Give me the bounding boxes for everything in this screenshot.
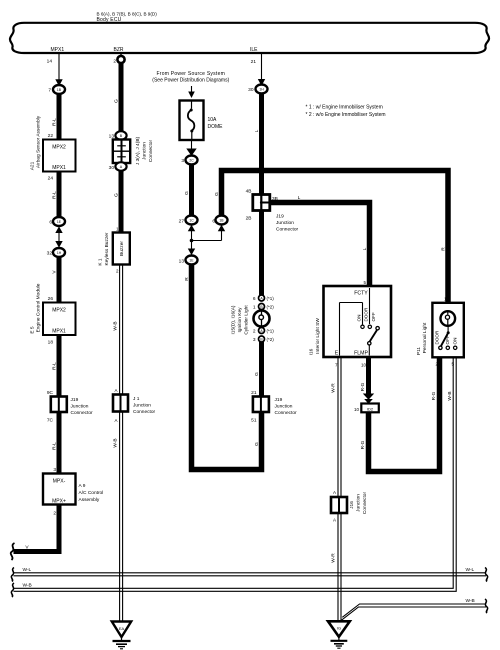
svg-text:22: 22 — [48, 133, 54, 139]
wire R-L col1 upper — [57, 94, 62, 140]
wire ILE stub — [261, 53, 263, 80]
connector ID2 — [354, 404, 379, 413]
svg-text:10A: 10A — [208, 117, 218, 123]
svg-text:2B: 2B — [246, 216, 252, 222]
wire R-G to personal light — [369, 357, 440, 471]
wire L ILE — [259, 94, 264, 195]
svg-text:W-B: W-B — [466, 598, 475, 604]
svg-text:24: 24 — [48, 176, 54, 182]
svg-text:A: A — [333, 518, 336, 523]
connector arrow up col4 — [218, 225, 225, 232]
svg-text:R-L: R-L — [52, 191, 58, 199]
main horizontal wire and P11 feed — [222, 171, 449, 303]
svg-text:W-R: W-R — [331, 553, 337, 563]
svg-text:G: G — [254, 442, 260, 446]
svg-text:(*2): (*2) — [267, 305, 275, 310]
svg-text:(*1): (*1) — [267, 329, 275, 334]
svg-text:R-L: R-L — [52, 442, 58, 450]
svg-text:ON: ON — [356, 315, 361, 322]
wire junction to col4 — [192, 240, 222, 242]
svg-text:2: 2 — [53, 511, 56, 517]
svg-text:1H: 1H — [57, 251, 62, 255]
svg-text:ON: ON — [452, 338, 457, 345]
svg-text:Cylinder Light: Cylinder Light — [244, 305, 250, 335]
svg-text:R-G: R-G — [360, 382, 366, 391]
wire W-B from P11 to left break — [14, 357, 457, 591]
svg-text:MPX1: MPX1 — [51, 47, 65, 53]
wire W-B col2 double line — [120, 265, 123, 621]
svg-text:Connector: Connector — [133, 409, 156, 415]
svg-text:1H: 1H — [259, 88, 264, 92]
svg-text:(*2): (*2) — [267, 337, 275, 342]
svg-text:A: A — [114, 388, 117, 393]
wire R-L col1 fourth — [57, 412, 62, 474]
svg-text:32: 32 — [47, 251, 53, 257]
label J 3(A), J 4(B) Junction Connector — [135, 136, 154, 165]
svg-text:G: G — [184, 191, 190, 195]
svg-text:FLMP: FLMP — [354, 351, 368, 357]
svg-text:Connector: Connector — [276, 227, 299, 233]
connector 6 (1B) col4 — [212, 216, 227, 225]
svg-text:Connector: Connector — [71, 410, 94, 416]
connector 27 (1C) — [179, 216, 198, 225]
svg-text:Junction: Junction — [275, 404, 293, 410]
svg-text:W-B: W-B — [23, 583, 32, 589]
svg-text:2: 2 — [253, 329, 256, 335]
connector 7 (1B) — [48, 85, 65, 94]
svg-text:Connector: Connector — [275, 410, 298, 416]
svg-text:G: G — [114, 99, 120, 103]
svg-text:6: 6 — [212, 219, 215, 225]
wire fuse to connector — [191, 140, 193, 149]
svg-text:J16: J16 — [349, 501, 355, 509]
svg-text:MPX2: MPX2 — [52, 308, 66, 314]
svg-text:J 1: J 1 — [133, 396, 140, 402]
svg-text:R-L: R-L — [52, 362, 58, 370]
svg-text:Ignition Key: Ignition Key — [237, 307, 243, 333]
svg-text:(*1): (*1) — [267, 296, 275, 301]
fuse 10A DOME — [180, 101, 204, 141]
svg-text:From Power Source System: From Power Source System — [157, 71, 226, 77]
wire into fuse — [191, 86, 193, 92]
connector 3 (2C) — [181, 156, 197, 165]
male connector arrow — [186, 149, 196, 157]
connector 32 (1H) — [47, 248, 65, 257]
wire G col3 — [189, 165, 194, 216]
connector ring BZR — [117, 56, 124, 63]
svg-text:14: 14 — [47, 59, 53, 65]
svg-text:2: 2 — [113, 59, 116, 65]
value 10A DOME — [208, 117, 224, 130]
svg-text:30: 30 — [248, 87, 254, 93]
svg-text:P11: P11 — [416, 347, 422, 356]
male connector double arrow — [363, 394, 374, 404]
airbag sensor assembly A21 box — [43, 140, 76, 172]
junction dot — [190, 239, 194, 243]
wire col3 to junction — [191, 231, 193, 241]
connector 30 (1H) ILE — [248, 85, 267, 94]
A/C control assembly A9 box — [43, 474, 76, 505]
svg-text:Buzzer: Buzzer — [119, 241, 125, 256]
keyless buzzer K1 box — [113, 233, 130, 265]
junction connector J16 box on W-R — [331, 497, 347, 513]
svg-text:Assembly: Assembly — [79, 497, 100, 503]
svg-text:26: 26 — [48, 296, 54, 302]
break symbol V wire — [11, 543, 15, 560]
arrow into fuse — [188, 92, 195, 99]
connector arrow down col1b — [55, 241, 62, 248]
wire between connectors col1 — [58, 232, 60, 242]
wire G ILE lower — [259, 342, 264, 397]
svg-text:MPX1: MPX1 — [52, 165, 66, 171]
svg-text:* 1 : w/ Engine Immobiliser S: * 1 : w/ Engine Immobiliser System — [306, 104, 383, 110]
connector arrow down to 13 — [188, 249, 195, 256]
svg-text:OFF: OFF — [445, 335, 450, 344]
break symbol W-L left — [11, 568, 14, 582]
junction connector J3(A) J4(B) box — [113, 140, 130, 164]
svg-text:1: 1 — [253, 305, 256, 311]
svg-text:DOOR: DOOR — [434, 330, 439, 344]
label A 9 A/C Control Assembly — [79, 483, 104, 503]
connector A (*1) upper — [253, 295, 274, 302]
svg-text:Engine Control Module: Engine Control Module — [36, 283, 42, 332]
svg-text:J19: J19 — [71, 397, 79, 403]
svg-text:(See Power Distribution Diagra: (See Power Distribution Diagrams) — [152, 78, 229, 84]
connector 13 (B) — [109, 131, 127, 140]
svg-text:EA: EA — [119, 626, 125, 631]
connector 30 (A) — [109, 162, 127, 171]
svg-text:18: 18 — [48, 340, 54, 346]
svg-text:3: 3 — [53, 467, 56, 473]
wire R-G from FLMP — [366, 357, 371, 394]
svg-text:7: 7 — [48, 88, 51, 94]
connector 13 (1E) — [179, 256, 198, 265]
svg-text:A: A — [333, 490, 336, 495]
svg-text:W-B: W-B — [112, 438, 118, 447]
svg-text:DOME: DOME — [208, 124, 224, 130]
connector B (*2) lower — [253, 336, 274, 343]
wire L from J19 to interior light switch — [270, 203, 370, 287]
connector arrow up col1 — [55, 226, 62, 233]
connector B (*2) upper — [253, 304, 274, 311]
svg-text:I15(D), I16(A): I15(D), I16(A) — [231, 305, 237, 334]
wire V to left break — [14, 505, 60, 552]
svg-text:W-R: W-R — [331, 383, 337, 393]
svg-text:ILE: ILE — [250, 47, 258, 53]
svg-text:21: 21 — [251, 390, 257, 396]
svg-text:E: E — [335, 351, 339, 357]
svg-text:A/C Control: A/C Control — [79, 490, 104, 496]
svg-text:L: L — [298, 195, 301, 201]
wire col4 riser — [221, 231, 223, 241]
svg-text:Airbag Sensor Assembly: Airbag Sensor Assembly — [36, 115, 42, 168]
svg-text:Junction: Junction — [356, 494, 362, 512]
svg-text:W-B: W-B — [447, 391, 453, 400]
svg-text:MPX-: MPX- — [53, 479, 66, 485]
wire R col3 down and across to ILE column — [192, 265, 262, 470]
wire ILE below J19 — [259, 211, 264, 296]
svg-text:A: A — [114, 418, 117, 423]
svg-text:30: 30 — [109, 165, 115, 171]
svg-text:27: 27 — [179, 219, 185, 225]
interior light switch I16 box — [324, 286, 392, 357]
svg-text:W-L: W-L — [466, 567, 475, 573]
break symbol W-B right — [485, 599, 488, 613]
svg-text:4B: 4B — [246, 189, 252, 195]
connector 6 (1E) — [49, 217, 65, 226]
svg-text:Junction: Junction — [71, 404, 89, 410]
connector arrow down col1 — [55, 79, 62, 86]
svg-text:ID2: ID2 — [367, 407, 374, 412]
junction connector J19 (ILE) box — [246, 189, 299, 233]
svg-text:7C: 7C — [47, 418, 54, 424]
wire junction down — [191, 241, 193, 250]
wire G col2 upper — [119, 63, 124, 132]
svg-text:J 3(A), J 4(B): J 3(A), J 4(B) — [135, 136, 141, 165]
label J16 Junction Connector — [349, 492, 368, 515]
wire W-L across — [14, 573, 487, 576]
svg-text:MPX1: MPX1 — [52, 329, 66, 335]
svg-text:6: 6 — [49, 220, 52, 226]
wire G col2 lower — [119, 171, 124, 233]
svg-text:DOOR: DOOR — [364, 307, 369, 321]
svg-text:3: 3 — [181, 158, 184, 164]
svg-text:K 1: K 1 — [98, 258, 104, 266]
svg-text:G: G — [254, 372, 260, 376]
svg-text:G: G — [114, 193, 120, 197]
wire W-B right to ground — [341, 604, 486, 620]
svg-text:R: R — [441, 247, 447, 251]
wire V col1 — [57, 257, 62, 303]
ground EA — [112, 622, 131, 649]
svg-text:2C: 2C — [189, 159, 194, 163]
svg-text:A21: A21 — [30, 161, 36, 170]
svg-text:10: 10 — [361, 363, 367, 368]
svg-text:B 6(A), B 7(B), B 8(C), B 9(D): B 6(A), B 7(B), B 8(C), B 9(D) — [97, 11, 158, 16]
svg-text:1E: 1E — [57, 220, 62, 224]
svg-text:Body ECU: Body ECU — [97, 17, 122, 23]
svg-text:J19: J19 — [275, 397, 283, 403]
svg-text:13: 13 — [179, 259, 185, 265]
junction connector J19 col1 — [51, 397, 93, 417]
svg-text:Junction: Junction — [133, 403, 151, 409]
svg-text:MPX+: MPX+ — [52, 499, 66, 505]
wire R-L col1 second — [57, 172, 62, 218]
svg-text:E 5: E 5 — [30, 326, 36, 334]
engine control module E5 box — [43, 303, 76, 336]
svg-text:FCTY: FCTY — [354, 291, 368, 297]
svg-text:Keyless Buzzer: Keyless Buzzer — [104, 232, 110, 265]
ground IG — [328, 621, 350, 648]
svg-text:6: 6 — [253, 296, 256, 302]
svg-text:W-B: W-B — [112, 321, 118, 330]
svg-text:1C: 1C — [189, 219, 194, 223]
svg-text:Junction: Junction — [276, 220, 294, 226]
wire MPX1 stub — [58, 53, 60, 80]
svg-text:Personal Light: Personal Light — [422, 322, 428, 353]
break symbol W-B left — [11, 583, 14, 597]
svg-text:R: R — [184, 277, 190, 281]
svg-text:1E: 1E — [189, 259, 194, 263]
svg-text:1B: 1B — [57, 88, 62, 92]
svg-text:J19: J19 — [276, 214, 284, 220]
lamp ignition key cylinder light — [254, 311, 270, 327]
svg-text:IG: IG — [337, 626, 341, 631]
svg-text:Connector: Connector — [148, 140, 154, 163]
svg-text:R-G: R-G — [360, 440, 366, 449]
svg-text:G: G — [214, 192, 220, 196]
connector arrow up col3 — [188, 225, 195, 232]
svg-text:1B: 1B — [219, 219, 224, 223]
svg-text:51: 51 — [251, 418, 257, 424]
junction connector J19 mid box — [253, 397, 297, 417]
svg-text:MPX2: MPX2 — [52, 145, 66, 151]
svg-text:BZR: BZR — [114, 47, 124, 53]
wire BZR stub — [120, 53, 122, 57]
svg-text:W-L: W-L — [23, 567, 32, 573]
svg-text:I16: I16 — [309, 348, 315, 355]
svg-text:10: 10 — [354, 407, 360, 412]
svg-text:21: 21 — [251, 59, 257, 65]
svg-text:R-G: R-G — [431, 391, 437, 400]
junction connector J1 box — [113, 395, 156, 416]
svg-text:Connector: Connector — [362, 492, 368, 515]
svg-text:A 9: A 9 — [79, 483, 86, 489]
svg-text:Interior Light SW: Interior Light SW — [315, 318, 321, 354]
svg-text:3: 3 — [253, 337, 256, 343]
svg-text:* 2 : w/o Engine Immobiliser: * 2 : w/o Engine Immobiliser System — [306, 112, 386, 118]
break symbol W-L right — [485, 568, 488, 582]
svg-text:Junction: Junction — [142, 142, 148, 160]
wire W-R double from E — [338, 357, 341, 621]
svg-text:OFF: OFF — [371, 312, 376, 321]
connector arrow down ILE — [258, 79, 265, 86]
wire R-L col1 third — [57, 335, 62, 397]
svg-text:R-L: R-L — [52, 118, 58, 126]
personal light P11 box — [432, 303, 463, 358]
Body ECU bus bar — [10, 23, 489, 53]
svg-text:9C: 9C — [47, 390, 54, 396]
connector A (*1) lower — [253, 328, 274, 335]
